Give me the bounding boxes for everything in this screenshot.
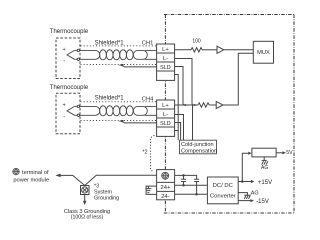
- svg-text:L-: L-: [163, 112, 168, 118]
- svg-text:Thermocouple: Thermocouple: [50, 85, 89, 91]
- svg-text:MUX: MUX: [257, 50, 270, 56]
- svg-text:(100Ω of less): (100Ω of less): [71, 215, 104, 221]
- svg-text:*2: *2: [142, 150, 147, 156]
- svg-text:DC/ DC: DC/ DC: [213, 183, 234, 189]
- svg-text:CH1: CH1: [142, 40, 154, 46]
- svg-text:Thermocouple: Thermocouple: [50, 29, 89, 35]
- svg-text:24-: 24-: [161, 194, 169, 200]
- svg-text:Converter: Converter: [210, 193, 236, 199]
- svg-text:-15V: -15V: [256, 199, 269, 205]
- svg-text:Compensation: Compensation: [181, 148, 217, 154]
- svg-text:5V: 5V: [286, 150, 293, 156]
- svg-text:L+: L+: [162, 103, 169, 109]
- svg-text:24+: 24+: [160, 185, 170, 191]
- svg-text:Shielded*1: Shielded*1: [95, 95, 125, 101]
- svg-text:+: +: [63, 47, 66, 53]
- svg-text:-: -: [63, 114, 65, 120]
- svg-text:+: +: [63, 102, 66, 108]
- svg-text:power module: power module: [13, 178, 49, 184]
- svg-text:L-: L-: [163, 56, 168, 62]
- svg-text:AG: AG: [251, 191, 259, 197]
- svg-text:L+: L+: [162, 47, 169, 53]
- svg-text:Shielded*1: Shielded*1: [95, 40, 125, 46]
- svg-text:100: 100: [192, 39, 201, 45]
- svg-text:terminal of: terminal of: [22, 170, 49, 176]
- svg-text:SLD: SLD: [160, 65, 171, 71]
- svg-text:+15V: +15V: [258, 180, 272, 186]
- svg-text:SLD: SLD: [160, 121, 171, 127]
- svg-text:-: -: [63, 59, 65, 65]
- svg-text:Grounding: Grounding: [94, 196, 119, 202]
- svg-text:AG: AG: [261, 165, 268, 171]
- svg-text:Cold-junction: Cold-junction: [181, 142, 214, 148]
